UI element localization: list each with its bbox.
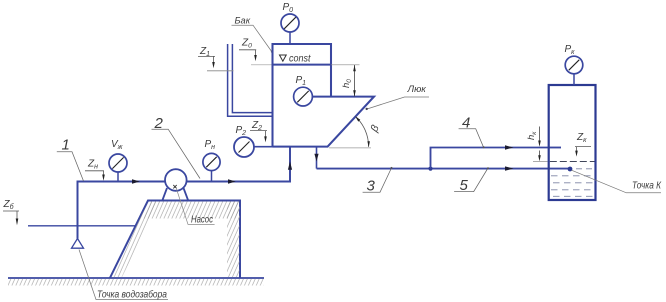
flow arrow pipe 4 end [555,146,562,150]
svg-text:Точка водозабора: Точка водозабора [97,289,167,301]
dim h_k arrow upper [538,141,541,147]
leader 2 [152,129,201,178]
tank level extension line [251,64,273,66]
leader tochka K [572,170,662,193]
water surface dashes [550,161,595,163]
flow arrow riser up [288,161,292,170]
tank K walls [549,85,596,200]
water dashes row2 right [576,168,594,170]
svg-text:hк: hк [526,131,538,140]
pipe P_2 to riser [254,146,290,148]
dim h0 line [354,65,356,96]
mound hatch right band [227,201,240,277]
dim bracket Z_n [85,171,104,175]
svg-text:P0: P0 [283,2,294,14]
svg-text:Zн: Zн [87,159,98,171]
dim h0 arrow top [353,65,356,71]
dim bracket Z_2 [250,131,267,137]
beta arc [356,117,369,147]
dim h_k line lower [539,151,541,157]
gauge P_2 needle [239,142,250,153]
arrow Z_0 [254,55,257,61]
gauge P_2 [234,137,254,157]
gauge V_zh [109,154,127,172]
svg-text:h0: h0 [341,79,353,88]
leader lyuk [367,97,429,109]
gauge P_k stem [573,74,575,85]
gauge V_zh stem [117,172,119,182]
dim h0 extension [331,64,360,66]
flow arrow on main pipe 1 [132,179,140,183]
flow arrow pipe 4 [505,145,514,149]
gauge P_0 needle [284,17,296,29]
strainer (intake) [72,239,84,249]
gauge P_1 [294,87,313,106]
svg-text:Насос: Насос [191,215,213,226]
source water line [28,225,135,227]
pump center mark [173,185,176,188]
junction node [428,167,432,171]
standpipe level tick [207,70,234,72]
standpipe piezometer [228,44,273,116]
leader 5 tip dot [487,167,489,169]
mound hatch top band [140,201,240,218]
svg-text:const: const [289,54,312,65]
gauge P_0 [281,14,299,32]
suction pipe [77,182,79,239]
dim h0 arrow bottom [353,90,356,96]
gauge P_k needle [569,60,579,70]
gauge P_n needle [206,157,216,167]
ground hatch strip [8,279,264,286]
svg-text:Z0: Z0 [241,38,252,50]
water dashes row4 [553,182,595,184]
tank Bak outline [273,44,375,147]
pipe 5 inside tank [549,168,570,170]
tank K body [549,85,596,200]
beta reference line [329,147,371,149]
leader bak [232,25,273,52]
gauge P_n stem [211,171,213,182]
mound outline [110,201,240,278]
pump legs [163,188,189,200]
svg-text:Точка К: Точка К [632,181,662,192]
water dashes row5 [551,189,595,191]
leader tochka vodozabora [79,250,168,300]
gauge V_zh needle [112,157,123,168]
point K node [568,167,573,172]
dim h_k arrow lower [538,155,541,161]
arrow Z_2 [264,136,267,142]
water dashes row6 [553,195,595,197]
beta arc arrow bottom [367,141,370,147]
pipe 4 with riser [431,148,562,169]
pipe 4 inside tank [549,147,561,149]
svg-text:Люк: Люк [407,84,427,95]
ground line [8,277,264,279]
pump Nasos [165,169,187,191]
arrow Z_1 [212,62,215,68]
leader 4 tip dot [483,146,485,148]
dim bracket Z_b [3,211,19,220]
dim bracket Z_k [575,147,591,151]
leader 4 [459,129,484,148]
leader 1 [57,152,84,181]
svg-text:P2: P2 [236,125,247,137]
svg-text:Бак: Бак [235,16,251,26]
gauge P_0 stem [289,32,291,44]
leader 3 [363,168,392,192]
main pipe with risers [78,147,291,239]
leader 5 [454,168,488,192]
dim h_k tick [533,161,548,163]
dim bracket Z_1 [198,56,215,62]
svg-text:Pн: Pн [205,139,216,151]
svg-text:β: β [368,123,382,134]
leader lyuk end dot [366,108,368,110]
arrow Z_k [575,151,578,157]
dim h_k line upper [539,127,541,143]
water dashes row3 [551,175,595,177]
flow arrow outlet down [314,154,318,162]
level symbol nabla [280,55,287,61]
flow arrow pipe 5 [505,166,514,170]
gauge P_k [565,56,583,74]
svg-text:1: 1 [62,137,70,154]
svg-text:Zб: Zб [3,199,15,211]
pipe 3 [317,168,571,170]
leader nasos [177,189,215,224]
svg-text:Vж: Vж [111,139,124,151]
mound hatch slope band [111,201,160,277]
gauge P_1 needle [297,91,308,102]
dim bracket Z_0 [239,50,256,56]
gauge P_n [203,153,220,170]
arrow Z_b [16,219,19,226]
svg-text:Pк: Pк [565,44,576,56]
arrow Z_n [102,175,105,181]
svg-text:P1: P1 [296,75,307,87]
leader bak end dot [271,51,273,53]
leader 3 tip dot [391,167,393,169]
flow arrow on main pipe 2 [228,179,236,183]
beta arc arrow top [355,116,360,121]
tank outlet riser down [316,147,318,169]
